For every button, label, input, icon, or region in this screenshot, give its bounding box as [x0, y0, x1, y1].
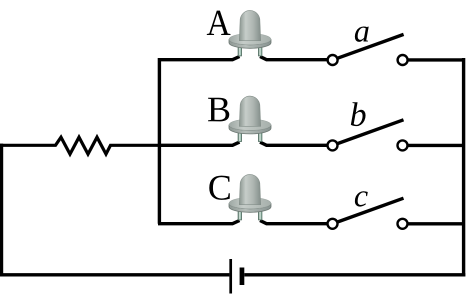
wire: bottom horizontal left of battery: [0, 273, 229, 276]
label b: [351, 102, 366, 126]
wire: row A switch a to right vertical: [408, 58, 465, 61]
wire: bottom horizontal right of battery: [244, 273, 465, 276]
wire: row B lamp B to switch b: [260, 142, 328, 145]
wire: middle vertical bus: [158, 58, 161, 224]
battery: short thick plate: [240, 268, 245, 286]
switch c: [328, 198, 408, 229]
battery: long thin plate: [229, 259, 232, 294]
wire: row C switch c to right vertical: [408, 222, 465, 225]
label B: [208, 98, 229, 122]
wire: row B switch b to right vertical: [408, 144, 465, 147]
switch a: [328, 34, 408, 65]
lamp C: [229, 174, 271, 219]
label a: [355, 26, 369, 41]
resistor R: [0, 137, 161, 154]
wire: row A lamp A to switch a: [260, 57, 328, 60]
lamp A: [229, 10, 271, 55]
wire: row C bus to lamp C: [158, 221, 240, 224]
label C: [209, 176, 230, 200]
switch b: [328, 120, 408, 151]
wire: row C lamp C to switch c: [260, 221, 328, 224]
wire: row B bus to lamp B: [158, 142, 240, 145]
label A: [207, 11, 231, 35]
wire: right vertical: [462, 58, 465, 277]
lamp B: [229, 96, 271, 141]
label c: [355, 191, 368, 206]
wire: row A bus to lamp A: [158, 57, 240, 60]
wire: left vertical: [0, 144, 3, 277]
